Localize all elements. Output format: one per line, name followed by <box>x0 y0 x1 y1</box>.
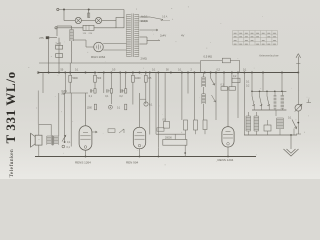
svg-text:500: 500 <box>97 77 102 80</box>
svg-text:4x0,1: 4x0,1 <box>141 14 148 18</box>
svg-text:RGN 1064: RGN 1064 <box>91 55 106 59</box>
svg-text:Telefunken: Telefunken <box>8 149 15 178</box>
svg-text:2 MΩ: 2 MΩ <box>141 56 147 60</box>
svg-text:275: 275 <box>39 36 44 40</box>
svg-text:REN 904: REN 904 <box>126 161 139 165</box>
svg-text:RENS 1204: RENS 1204 <box>218 158 234 162</box>
svg-text:2x4V: 2x4V <box>160 34 166 38</box>
svg-text:Antennenbuchse: Antennenbuchse <box>258 53 279 57</box>
svg-text:2x0,1: 2x0,1 <box>141 19 148 23</box>
svg-text:0,5 MΩ: 0,5 MΩ <box>204 55 213 59</box>
svg-text:5000: 5000 <box>72 77 78 80</box>
svg-text:1000: 1000 <box>135 77 141 80</box>
svg-text:20000: 20000 <box>165 136 172 139</box>
svg-text:2x45: 2x45 <box>55 42 61 46</box>
svg-text:RENS 1264: RENS 1264 <box>75 161 91 165</box>
svg-text:T 331 WL/o: T 331 WL/o <box>3 71 18 143</box>
svg-text:0,5 A: 0,5 A <box>162 16 168 19</box>
svg-text:1000: 1000 <box>87 107 93 109</box>
svg-text:4V: 4V <box>181 34 184 38</box>
svg-text:2µF: 2µF <box>62 93 67 96</box>
